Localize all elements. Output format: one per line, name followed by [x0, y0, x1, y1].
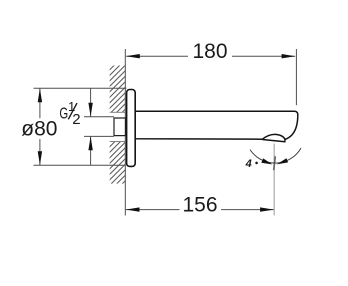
angle arrow right — [277, 158, 289, 164]
angle tick — [274, 156, 276, 170]
svg-text:180: 180 — [192, 40, 227, 63]
dim G1/2 extension bottom — [84, 135, 114, 137]
G1/2 nipple — [114, 118, 125, 136]
angle arc — [250, 148, 301, 163]
dim dia80 line — [39, 88, 41, 118]
svg-text:2: 2 — [72, 111, 80, 128]
aerator underside — [262, 139, 285, 141]
wall hole bottom edge — [110, 141, 126, 143]
svg-text:4: 4 — [245, 158, 252, 170]
dim dia80 extension bottom — [34, 164, 126, 166]
dim G1/2 arrow down — [88, 103, 92, 117]
svg-text:G: G — [59, 106, 68, 123]
dim G1/2 arrow up — [88, 136, 92, 150]
spout centerline — [273, 144, 275, 216]
G1/2 label — [59, 99, 80, 128]
wall surface line — [124, 49, 126, 216]
angle arrow left — [261, 158, 272, 164]
dim 180 arrow left — [126, 54, 140, 58]
svg-text:ø80: ø80 — [21, 118, 57, 141]
dim 180 arrow right — [282, 54, 296, 58]
dim dia80 arrow up — [38, 88, 42, 102]
dim 180 line — [126, 55, 188, 57]
dim dia80 extension top — [34, 87, 127, 89]
dim 156 arrow right — [260, 207, 274, 211]
svg-text:156: 156 — [182, 193, 217, 216]
dim 156 arrow left — [126, 207, 140, 211]
wall hatching — [0, 54, 252, 184]
dim dia80 arrow down — [38, 151, 42, 165]
dim G1/2 line bottom — [90, 136, 92, 165]
flange — [127, 90, 136, 167]
dim 180 extension right — [295, 49, 297, 105]
spout body — [135, 111, 298, 139]
dim G1/2 line top — [90, 88, 92, 116]
wall hole top edge — [110, 111, 126, 113]
dim G1/2 extension top — [84, 116, 114, 118]
dim 156 line — [126, 209, 180, 211]
